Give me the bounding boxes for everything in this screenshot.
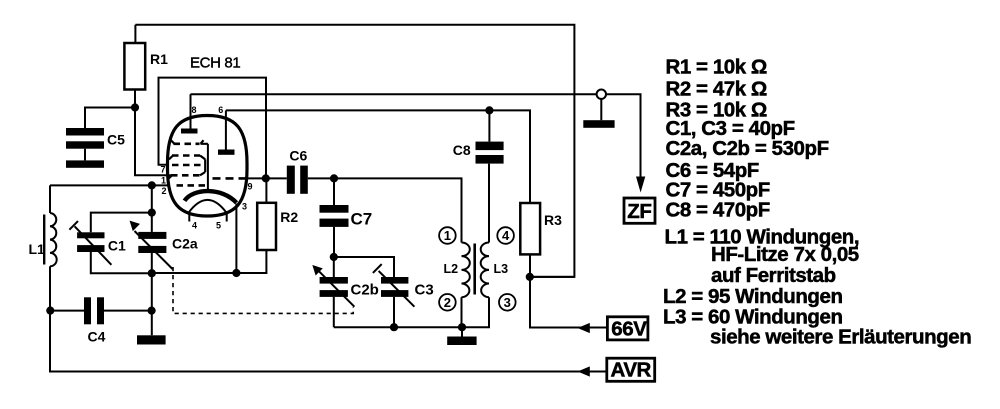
wire C7 bottom lead [333, 227, 335, 257]
wire secondary bottom line to L3 bottom [334, 297, 489, 327]
node R1/C5 junction [131, 103, 139, 111]
capacitor C5 [66, 128, 125, 149]
tube grid row B dashed with hooks [169, 156, 205, 160]
svg-text:R1: R1 [150, 51, 168, 67]
wire C4 right link [104, 310, 152, 312]
svg-text:C6: C6 [289, 148, 307, 164]
wire grid-cap rectangle from row C around to pin 9 node [159, 78, 267, 179]
capacitor C2b variable [313, 266, 378, 307]
transformer core [473, 244, 476, 295]
inductor L2 [444, 243, 470, 298]
svg-text:HF-Litze 7x 0,05: HF-Litze 7x 0,05 [711, 243, 859, 266]
wire ground stub under terminal [600, 99, 602, 120]
node C1 top tee [148, 209, 156, 217]
svg-text:R2: R2 [280, 209, 298, 225]
svg-text:L3: L3 [494, 262, 509, 276]
capacitor C7 [320, 205, 373, 229]
svg-text:3: 3 [504, 295, 511, 310]
svg-text:5: 5 [216, 221, 221, 231]
svg-text:2: 2 [162, 186, 167, 196]
dashed gang link C2a to C2b [173, 267, 353, 313]
arrowhead AVR [578, 366, 590, 376]
node C3 bottom [390, 323, 398, 331]
svg-text:siehe weitere Erläuterungen: siehe weitere Erläuterungen [710, 325, 971, 348]
resistor R1 [124, 43, 168, 90]
tube heater pin stubs 4 and 5 [189, 214, 226, 231]
terminal circle 3 [499, 294, 516, 311]
resistor R3 [520, 203, 562, 254]
svg-text:R3: R3 [544, 212, 562, 228]
svg-text:auf Ferritstab: auf Ferritstab [711, 264, 836, 287]
svg-text:2: 2 [444, 295, 451, 310]
wire C7 top lead [333, 178, 335, 205]
wire left rail and L1 branch [50, 185, 608, 371]
svg-text:C2a, C2b = 530pF: C2a, C2b = 530pF [666, 137, 829, 160]
arrowhead 66V [578, 323, 590, 333]
wire C8 bottom to L3 top [488, 164, 490, 243]
box 66V [607, 317, 648, 341]
tube internal vertical to cathode [207, 144, 209, 192]
node cathode wire tee [232, 269, 240, 277]
wire C8 top lead [488, 110, 490, 141]
svg-text:1: 1 [161, 175, 166, 185]
svg-text:C8 = 470pF: C8 = 470pF [666, 198, 770, 221]
terminal circle antenna tap [597, 90, 606, 99]
wire L2 bottom lead [461, 297, 463, 327]
wire top rail from R1 top to right side down to R3 bottom node [135, 25, 574, 277]
svg-text:4: 4 [192, 221, 197, 231]
svg-text:C8: C8 [453, 142, 471, 158]
wire cathode return line to R2 bottom [152, 250, 267, 273]
svg-text:9: 9 [248, 182, 253, 192]
wire C6 output run to L2 top [308, 178, 462, 242]
svg-text:R1 = 10k Ω: R1 = 10k Ω [666, 55, 767, 78]
node C8 top [485, 106, 493, 114]
svg-text:3: 3 [242, 202, 247, 212]
svg-text:C5: C5 [107, 132, 125, 148]
wire pin 6 screen line to R3 top [226, 110, 530, 203]
wire C5 top lead [85, 108, 135, 129]
tube grid row C dashed [172, 164, 204, 167]
svg-text:66V: 66V [611, 317, 647, 340]
tube heater arc [189, 200, 227, 213]
tube pin 8 anode bar and lead [181, 94, 198, 133]
wire R3 bottom node links [530, 254, 608, 327]
node C2b/C3 top junction [330, 253, 338, 261]
svg-text:1: 1 [444, 228, 451, 243]
wire C1 top loop [91, 213, 152, 233]
tube grid row E dashed (pins 1-2) [177, 184, 206, 187]
svg-text:6: 6 [218, 105, 223, 115]
svg-text:C2b: C2b [351, 282, 379, 299]
inductor L3 [481, 243, 508, 298]
capacitor C2a variable [131, 222, 198, 269]
wire pin 8 anode line to terminal and ZF [191, 94, 641, 177]
svg-text:ECH 81: ECH 81 [190, 55, 240, 72]
terminal circle 1 [439, 227, 456, 244]
wire C2b bottom lead [333, 297, 335, 327]
arrowhead ZF [636, 177, 645, 193]
svg-text:AVR: AVR [611, 358, 652, 381]
svg-text:8: 8 [192, 105, 197, 115]
wire C1 bottom loop [91, 252, 152, 273]
box ZF [624, 198, 655, 223]
capacitor C8 [453, 142, 504, 164]
tube cathode arc [185, 191, 237, 203]
ground below L2 [447, 337, 476, 346]
terminal circle 4 [497, 227, 514, 244]
ground below C5 [66, 160, 104, 167]
node L2 bottom / ground [458, 323, 466, 331]
tube grid row D dashed with hooks [168, 172, 205, 179]
tube U1 envelope [168, 116, 248, 217]
svg-text:C2a: C2a [172, 236, 198, 252]
wire C2a branch vertical [151, 185, 153, 232]
wire R1 bottom lead down and right to tube pin 7 [135, 90, 171, 176]
svg-text:C4: C4 [88, 329, 106, 345]
capacitor C4 [84, 297, 106, 344]
box AVR [607, 358, 655, 381]
wire oscillator grid line pins 1-2 from left rail [50, 184, 169, 186]
tube pin 6 anode bar and lead [218, 105, 235, 155]
node C7 tee [330, 174, 338, 182]
svg-text:C7: C7 [351, 210, 373, 229]
wire C2a bottom to ground branch [151, 253, 153, 335]
wire C2b-C3 top links [334, 257, 394, 277]
node L1 bottom / C4 left [46, 307, 54, 315]
ground below terminal [583, 120, 614, 128]
node pin 9 / R2 top junction [262, 174, 270, 182]
svg-text:4: 4 [502, 228, 510, 243]
node grid line / C1-C2a branch [148, 181, 156, 189]
resistor R2 [257, 203, 298, 250]
terminal circle 2 [439, 294, 456, 311]
inductor L1 [29, 213, 57, 266]
wire R2 top lead [265, 178, 267, 202]
svg-text:ZF: ZF [627, 200, 651, 223]
wire C3 bottom lead [393, 297, 395, 327]
svg-text:L2: L2 [444, 262, 459, 276]
tube grid row A dashed [171, 140, 208, 144]
svg-text:L1: L1 [29, 241, 46, 257]
capacitor C3 variable trimmer [373, 264, 434, 307]
node C4 right / ground branch [148, 307, 156, 315]
wire ground stub under L2 [461, 327, 463, 336]
ground below C4 branch [137, 335, 166, 344]
wire tube pin 3 cathode lead down [235, 204, 237, 274]
tube pin labels 7 1 2 9 3 [161, 165, 253, 212]
wire R1 top lead [134, 25, 136, 43]
capacitor C1 variable [69, 221, 126, 265]
tube pin 9 grid row dashed [213, 177, 247, 180]
svg-text:R2 = 47k Ω: R2 = 47k Ω [666, 77, 767, 100]
node R3 bottom [526, 273, 534, 281]
capacitor C6 [287, 148, 308, 194]
svg-text:C3: C3 [415, 282, 434, 299]
tube grid screen tie vertical (g2-g4) [204, 159, 206, 172]
node C1 bottom / cathode line [148, 269, 156, 277]
wire pin 9 to C6 [247, 177, 287, 179]
svg-text:C1: C1 [108, 238, 126, 254]
svg-text:7: 7 [161, 165, 166, 175]
wire C4 left link [50, 310, 84, 312]
wire C5 to ground stub [84, 149, 86, 161]
